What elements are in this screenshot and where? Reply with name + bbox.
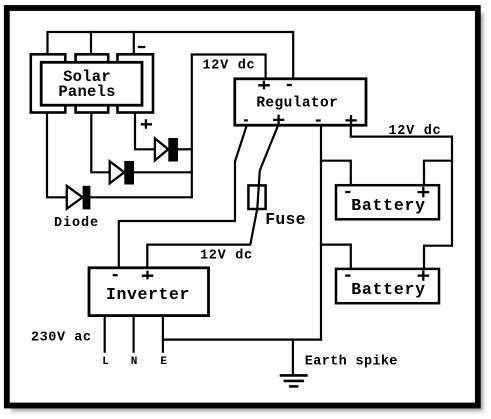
battery B2 bbox=[336, 269, 439, 303]
svg-text:Fuse: Fuse bbox=[265, 210, 305, 229]
wire battery B1 positive terminal bbox=[424, 161, 452, 185]
svg-text:Regulator: Regulator bbox=[256, 95, 338, 111]
svg-text:L: L bbox=[102, 356, 109, 368]
wire inverter output L bbox=[104, 316, 106, 352]
wire panel bottom-left to diode D3 anode bbox=[47, 112, 66, 197]
diode D1 bbox=[155, 138, 178, 162]
label + (battery B1 positive) bbox=[418, 187, 430, 197]
wire solar top right stub bbox=[133, 32, 135, 55]
diode D2 bbox=[110, 161, 134, 185]
label - (battery B2 negative) bbox=[345, 274, 350, 276]
svg-text:Panels: Panels bbox=[58, 83, 115, 101]
wire earth spike drop bbox=[292, 340, 294, 375]
ground (earth spike) bbox=[280, 375, 308, 386]
svg-text:230V ac: 230V ac bbox=[31, 331, 92, 346]
label + (regulator top input) bbox=[258, 81, 270, 90]
svg-text:N: N bbox=[131, 356, 138, 368]
svg-text:Earth spike: Earth spike bbox=[305, 355, 398, 370]
label - (regulator top input) bbox=[287, 84, 292, 86]
wire battery B1 negative terminal bbox=[321, 161, 351, 185]
label - (battery B1 negative) bbox=[345, 191, 350, 193]
wire battery B2 negative terminal bbox=[321, 245, 351, 269]
wire regulator bottom negative bus down to earth line bbox=[320, 126, 322, 340]
label - (regulator bottom pin 3) bbox=[316, 119, 321, 121]
label - (regulator bottom pin 1) bbox=[244, 119, 248, 121]
label - (inverter dc input) bbox=[113, 274, 118, 276]
wire 12V dc bus: diodes to regulator top "+" bbox=[192, 55, 266, 198]
wire inverter output E bbox=[162, 316, 164, 352]
svg-text:E: E bbox=[160, 356, 167, 368]
solar panel PV1 bbox=[31, 54, 153, 112]
label + (battery B2 positive) bbox=[418, 270, 430, 280]
svg-text:Diode: Diode bbox=[54, 216, 99, 231]
wire inverter output N bbox=[133, 316, 135, 352]
wire regulator bottom "+" to battery positive bus bbox=[351, 126, 452, 246]
label + (regulator bottom pin 2) bbox=[273, 115, 284, 127]
wire solar top middle stub bbox=[90, 32, 92, 55]
diode D3 bbox=[67, 186, 91, 210]
label + (solar positive) bbox=[141, 119, 152, 129]
inverter U2 bbox=[89, 268, 209, 316]
svg-text:12V dc: 12V dc bbox=[203, 59, 256, 74]
svg-text:Battery: Battery bbox=[351, 280, 426, 299]
label + (regulator bottom pin 4) bbox=[345, 115, 356, 127]
wire panel bottom-middle to diode D2 anode bbox=[91, 112, 109, 172]
label + (inverter dc input) bbox=[142, 271, 154, 280]
battery B1 bbox=[336, 185, 439, 219]
fuse F1 bbox=[248, 185, 265, 209]
svg-text:Inverter: Inverter bbox=[106, 285, 190, 304]
wire diode D1 cathode to 12V bus bbox=[179, 148, 192, 150]
svg-text:Battery: Battery bbox=[351, 196, 426, 215]
wire solar negative: panel top to top bus to regulator top "-" bbox=[48, 32, 294, 78]
svg-text:12V dc: 12V dc bbox=[200, 248, 253, 263]
svg-text:12V dc: 12V dc bbox=[389, 124, 442, 139]
wire battery B2 positive terminal bbox=[424, 246, 452, 269]
wire diode D3 cathode to 12V bus bbox=[91, 196, 192, 198]
wire regulator bottom "-" to inverter "-" bbox=[119, 126, 247, 268]
label - (solar negative) bbox=[138, 46, 146, 48]
regulator U1 bbox=[235, 79, 366, 125]
wire regulator bottom "+" through fuse to inverter "+" bbox=[147, 126, 277, 268]
wire diode D2 cathode to 12V bus bbox=[135, 171, 192, 173]
wire panel bottom-right (+) to diode D1 anode bbox=[135, 112, 154, 149]
wire earth line: E wire to negative bus bbox=[163, 339, 321, 341]
